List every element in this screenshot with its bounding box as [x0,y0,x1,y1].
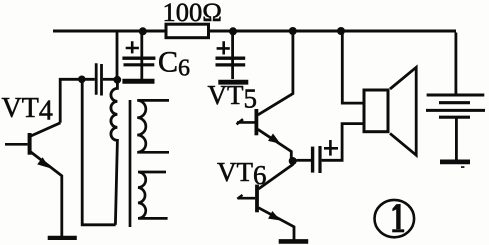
figure number circled 1 [375,200,415,237]
speaker BL frame [364,90,388,132]
ground VT4 emitter [48,236,77,240]
wire C6 branch drop [140,33,143,80]
wire rail to speaker top terminal [342,33,362,104]
transformer T core [129,100,132,227]
svg-text:100Ω: 100Ω [163,0,222,27]
battery GB [426,33,485,160]
wire cap to speaker bottom terminal [322,124,363,162]
wire transformer primary left leg [81,79,116,225]
transformer T secondary winding upper [137,100,169,152]
wire output node to cap [297,159,312,162]
transformer T primary winding [111,80,118,225]
capacitor bypass right [216,41,246,65]
svg-text:VT5: VT5 [208,80,258,114]
node junction dot C6 tap [139,27,147,35]
capacitor coupling [96,63,101,95]
svg-text:VT6: VT6 [217,157,267,190]
wire top supply rail [53,29,456,32]
node junction dot VT5 collector tap [289,27,297,35]
ground under C6 [122,79,154,84]
transistor VT4 [5,123,62,237]
node junction dot primary left [78,76,86,84]
label VT6 [217,157,267,190]
capacitor output electrolytic [313,140,338,173]
wire rail drop to transformer primary [116,33,119,78]
ground battery negative [440,162,470,168]
ground VT6 emitter [279,239,309,244]
transistor VT5 [237,33,293,161]
speaker BL horn [390,67,416,155]
node junction dot speaker tap [337,27,345,35]
wire coupling cap to node [103,78,116,81]
svg-text:VT4: VT4 [2,93,53,127]
capacitor C6 [122,41,155,65]
resistor R 100ohm [166,24,209,38]
node junction dot right cap tap [229,27,237,35]
label VT4 [2,93,53,127]
label 100ohm value [163,0,222,27]
label C6 [158,46,190,82]
wire right cap branch drop [231,33,234,80]
node junction dot output [289,157,297,165]
ground under right capacitor [218,80,248,85]
wire VT4 collector elbow [60,79,95,123]
node junction dot primary right [113,76,121,84]
label VT5 [208,80,258,114]
svg-text:C6: C6 [158,46,190,82]
transistor VT6 [237,162,294,240]
transformer T secondary winding lower [138,172,168,218]
